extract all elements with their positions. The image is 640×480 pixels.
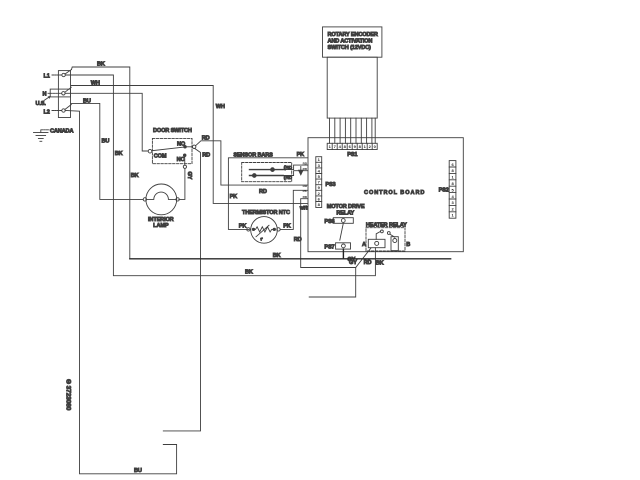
svg-text:LAMP: LAMP [153, 223, 169, 229]
sensor bar 2 [250, 175, 284, 177]
connector arrow symbol [299, 167, 303, 175]
relay arm and contacts [376, 232, 380, 240]
svg-text:PS3: PS3 [325, 182, 335, 188]
svg-text:NC: NC [177, 157, 185, 163]
svg-text:(RD: (RD [284, 175, 293, 180]
wire BU from L2 terminal to bottom [65, 111, 176, 474]
svg-text:B: B [406, 242, 410, 248]
svg-text:PK: PK [230, 194, 238, 200]
wire GY door NC to interior lamp [183, 165, 186, 168]
svg-text:PS2: PS2 [439, 187, 449, 193]
svg-text:A: A [362, 242, 366, 248]
encoder ribbon wires [330, 118, 376, 143]
wire N to door switch COM [65, 93, 148, 151]
svg-text:CANADA: CANADA [50, 128, 73, 134]
svg-text:RD: RD [259, 189, 267, 195]
control board [308, 138, 463, 252]
svg-text:WH: WH [303, 204, 309, 208]
svg-text:BK: BK [376, 260, 384, 266]
svg-text:BK: BK [115, 151, 123, 157]
svg-text:RD: RD [202, 152, 210, 158]
sensor bar 1 [250, 169, 284, 171]
wire BU from L2 arm to interior lamp [71, 103, 143, 199]
svg-text:RD: RD [303, 167, 308, 171]
connector PS6 [333, 218, 353, 224]
svg-text:PS7: PS7 [324, 244, 334, 250]
connector PS7 [336, 243, 351, 249]
PS3 tiny wire labels [303, 162, 310, 208]
wire RD door NO to PS3 (over sensor box) [196, 141, 308, 185]
wire RD PS3 pin8 to heater relay A and thermal fuse [301, 199, 371, 268]
svg-text:AND ACTIVATION: AND ACTIVATION [328, 39, 373, 45]
svg-text:DOOR SWITCH: DOOR SWITCH [153, 128, 192, 134]
svg-text:COM: COM [154, 154, 167, 160]
svg-text:RD: RD [364, 260, 372, 266]
CANADA ground symbol [40, 130, 42, 132]
svg-text:L1: L1 [44, 74, 50, 80]
svg-text:BU: BU [83, 99, 91, 105]
wire RD sensor bar1 to PS3 [283, 165, 308, 170]
svg-text:RELAY: RELAY [336, 210, 354, 216]
connector PS2 [449, 161, 456, 219]
svg-text:PS6: PS6 [324, 219, 334, 225]
svg-text:PK: PK [297, 152, 305, 158]
svg-text:WH: WH [216, 104, 225, 110]
svg-text:BU: BU [102, 139, 110, 145]
wire BK from L1 terminal [65, 75, 375, 276]
svg-text:CONTROL BOARD: CONTROL BOARD [364, 190, 425, 196]
terminal N box [50, 89, 70, 97]
svg-text:BK: BK [97, 62, 105, 68]
svg-text:PK: PK [239, 224, 247, 230]
rotary encoder box [323, 27, 382, 57]
svg-text:NO: NO [177, 142, 186, 148]
wire WH from N arm [71, 86, 307, 204]
wire PK thermistor to PS3 pin1 [228, 158, 307, 230]
svg-text:Θ 3723080: Θ 3723080 [65, 379, 72, 411]
svg-text:GY: GY [186, 172, 192, 180]
svg-text:MOTOR DRIVE: MOTOR DRIVE [327, 204, 365, 210]
svg-text:RD: RD [303, 184, 308, 188]
interior lamp [146, 184, 177, 215]
svg-text:RD: RD [303, 195, 308, 199]
encoder body [327, 57, 377, 118]
svg-text:BU: BU [134, 468, 142, 474]
relay contact A [368, 239, 385, 247]
svg-text:GY: GY [349, 260, 357, 266]
svg-text:SWITCH (12VDC): SWITCH (12VDC) [328, 45, 372, 51]
relay arm [340, 223, 344, 240]
svg-text:THERMISTOR NTC: THERMISTOR NTC [242, 210, 290, 216]
wire RD sensor bar2 to PS3 [283, 171, 308, 176]
svg-text:U.S.: U.S. [36, 101, 47, 107]
svg-text:WH: WH [91, 80, 100, 86]
relay contact B [391, 237, 398, 251]
wire PS7 to heavy BK wire [342, 249, 344, 259]
wire RD door NO down to motor switch pin 5 [163, 148, 200, 431]
connector PS3 [316, 157, 322, 208]
svg-text:ROTARY ENCODER: ROTARY ENCODER [328, 32, 378, 38]
power terminal block [58, 71, 70, 118]
wire RD door NO junction [186, 146, 192, 148]
connector PS1 [327, 143, 377, 149]
wire GY junction down to thermal fuse right [309, 268, 356, 298]
svg-text:N: N [43, 92, 47, 98]
svg-text:PK: PK [303, 189, 308, 193]
svg-text:BK: BK [131, 173, 139, 179]
svg-text:BK: BK [273, 253, 281, 259]
wire thermistor right to PS3 [280, 190, 308, 229]
svg-text:PS1: PS1 [347, 152, 357, 158]
svg-text:RD: RD [303, 162, 308, 166]
wire BK from L1 arm [72, 67, 130, 259]
svg-text:PK: PK [283, 223, 291, 229]
heavy BK wire L1 to PS7 to display ribbon [130, 258, 451, 260]
svg-text:BK: BK [245, 270, 253, 276]
svg-text:L2: L2 [44, 109, 50, 115]
svg-text:RD: RD [294, 237, 302, 243]
svg-text:(RD: (RD [284, 165, 293, 170]
